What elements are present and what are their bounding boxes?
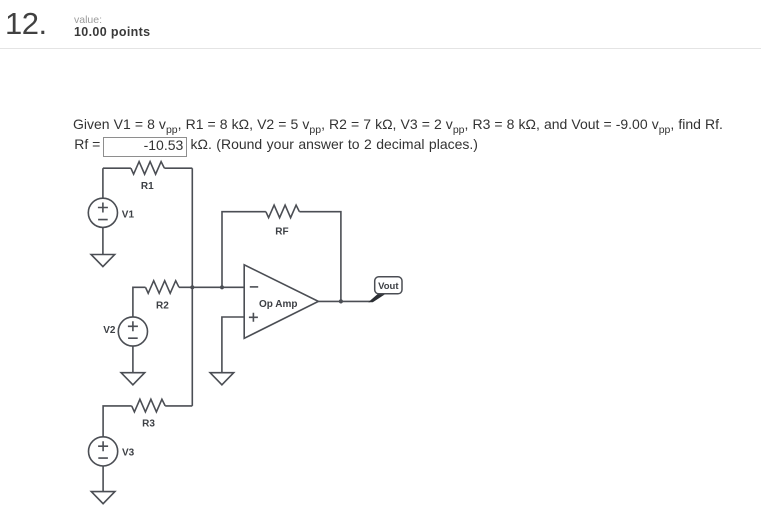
wire V2 bottom xyxy=(132,346,134,373)
svg-text:V1: V1 xyxy=(122,210,135,221)
op-amp U1 xyxy=(244,265,318,339)
svg-text:V3: V3 xyxy=(122,448,135,459)
question number xyxy=(5,9,47,39)
resistor R3 xyxy=(132,399,166,412)
wire bus vertical xyxy=(191,168,193,406)
answer input box xyxy=(103,137,187,157)
wire R3 to bus xyxy=(165,405,192,407)
Vout callout box xyxy=(375,277,402,294)
svg-text:V2: V2 xyxy=(103,325,116,336)
node junction bus/R2 xyxy=(190,285,194,289)
resistor R2 xyxy=(146,281,180,294)
wire output xyxy=(318,300,370,302)
ground (op-amp +) xyxy=(210,373,234,385)
wire R2 to op-amp xyxy=(179,286,244,288)
wire RF right leg xyxy=(299,212,341,302)
resistor RF xyxy=(266,205,300,218)
points xyxy=(74,26,150,39)
svg-text:Op Amp: Op Amp xyxy=(259,299,298,310)
node junction RF leg xyxy=(220,285,224,289)
node output junction xyxy=(339,299,343,303)
source V1 xyxy=(88,198,117,227)
svg-text:R2: R2 xyxy=(156,300,169,311)
source V2 xyxy=(118,317,147,346)
source V3 xyxy=(89,437,118,466)
svg-text:R3: R3 xyxy=(142,419,155,430)
separator xyxy=(0,48,761,49)
svg-text:Vout: Vout xyxy=(378,281,399,292)
ground (V2) xyxy=(121,373,145,385)
wire R2 left corner xyxy=(133,287,146,317)
ground (V1) xyxy=(91,255,115,267)
Vout callout tail xyxy=(368,294,386,303)
wire V1 top xyxy=(102,168,104,198)
question text xyxy=(73,116,761,134)
answer row units xyxy=(191,136,478,152)
ground (V3) xyxy=(91,492,115,504)
wire RF left leg xyxy=(222,212,266,288)
resistor R1 xyxy=(131,162,165,175)
wire op-amp plus input xyxy=(222,317,244,373)
op-amp minus pin mark xyxy=(250,286,258,288)
wire V1 bottom xyxy=(102,227,104,254)
op-amp plus pin mark xyxy=(249,313,258,322)
wire R1 top horizontal xyxy=(103,167,131,169)
wire R3 left corner xyxy=(103,406,132,437)
wire R1 to bus xyxy=(164,167,192,169)
wire V3 bottom xyxy=(102,466,104,492)
svg-text:R1: R1 xyxy=(141,181,154,192)
answer row label xyxy=(74,136,100,152)
svg-text:RF: RF xyxy=(275,226,288,237)
value label xyxy=(74,15,102,26)
